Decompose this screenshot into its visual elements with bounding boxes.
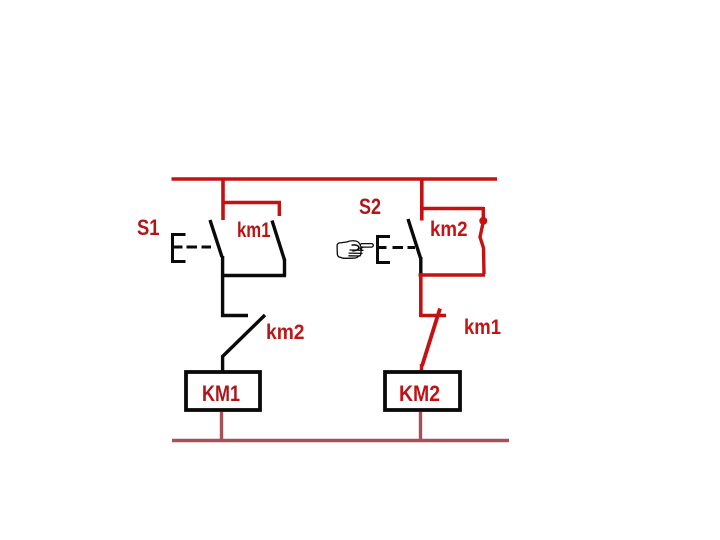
wire: KM1 coil to bottom bus — [220, 412, 223, 441]
pushbutton S2 contact blade — [408, 219, 421, 258]
junction dot (km2 contact upper terminal) — [479, 217, 487, 225]
wire: right junction down to km1 contact — [419, 275, 423, 317]
pushbutton S2 actuator (E shape with dashed link) — [376, 235, 415, 264]
contact km1 NC terminal tick — [420, 314, 446, 317]
svg-text:KM2: KM2 — [399, 381, 440, 406]
svg-text:km1: km1 — [237, 219, 271, 242]
svg-text:KM1: KM1 — [202, 381, 240, 406]
wire: left branch drop from top bus — [221, 178, 225, 220]
wire: left junction bar (node A) — [221, 274, 286, 277]
wire: km1 blade drop to junction — [283, 259, 286, 276]
wire: KM2 coil to bottom bus — [419, 412, 422, 441]
hand pointer icon — [337, 241, 373, 259]
pushbutton S1 actuator (E shape with dashed link) — [171, 233, 211, 263]
coil KM1 box — [186, 372, 260, 410]
wire: left junction down to km2 contact — [221, 275, 224, 317]
wire: right branch drop from top bus — [420, 178, 424, 221]
contact km2 NC terminal tick — [221, 314, 248, 317]
contact km1 NO blade — [272, 221, 285, 261]
wire: km1 blade to KM2 coil — [420, 364, 423, 371]
contact km1 NC blade (red) — [422, 309, 440, 367]
wire: right junction bar (node B) — [419, 273, 486, 277]
wire: right bracket drop to dot — [482, 207, 485, 218]
wire: right parallel bracket top — [420, 207, 484, 210]
wire: left parallel bracket top — [222, 201, 282, 204]
svg-text:km2: km2 — [430, 218, 468, 241]
svg-text:S1: S1 — [137, 215, 160, 240]
svg-text:km1: km1 — [464, 316, 501, 339]
bottom return bus — [172, 439, 509, 442]
pushbutton S1 contact blade — [210, 220, 222, 257]
svg-text:S2: S2 — [359, 194, 381, 219]
contact km2 NO blade (red, wobbly) — [480, 223, 484, 274]
coil KM2 box — [385, 372, 460, 410]
svg-text:km2: km2 — [266, 320, 305, 344]
wire: km2 contact to KM1 coil — [221, 356, 224, 371]
wire: S1 blade to left junction — [221, 256, 224, 276]
wire: S2 blade to right junction — [419, 257, 422, 274]
top supply bus — [172, 177, 498, 181]
contact km2 NC blade — [222, 315, 265, 357]
wire: left bracket right drop — [278, 201, 281, 216]
